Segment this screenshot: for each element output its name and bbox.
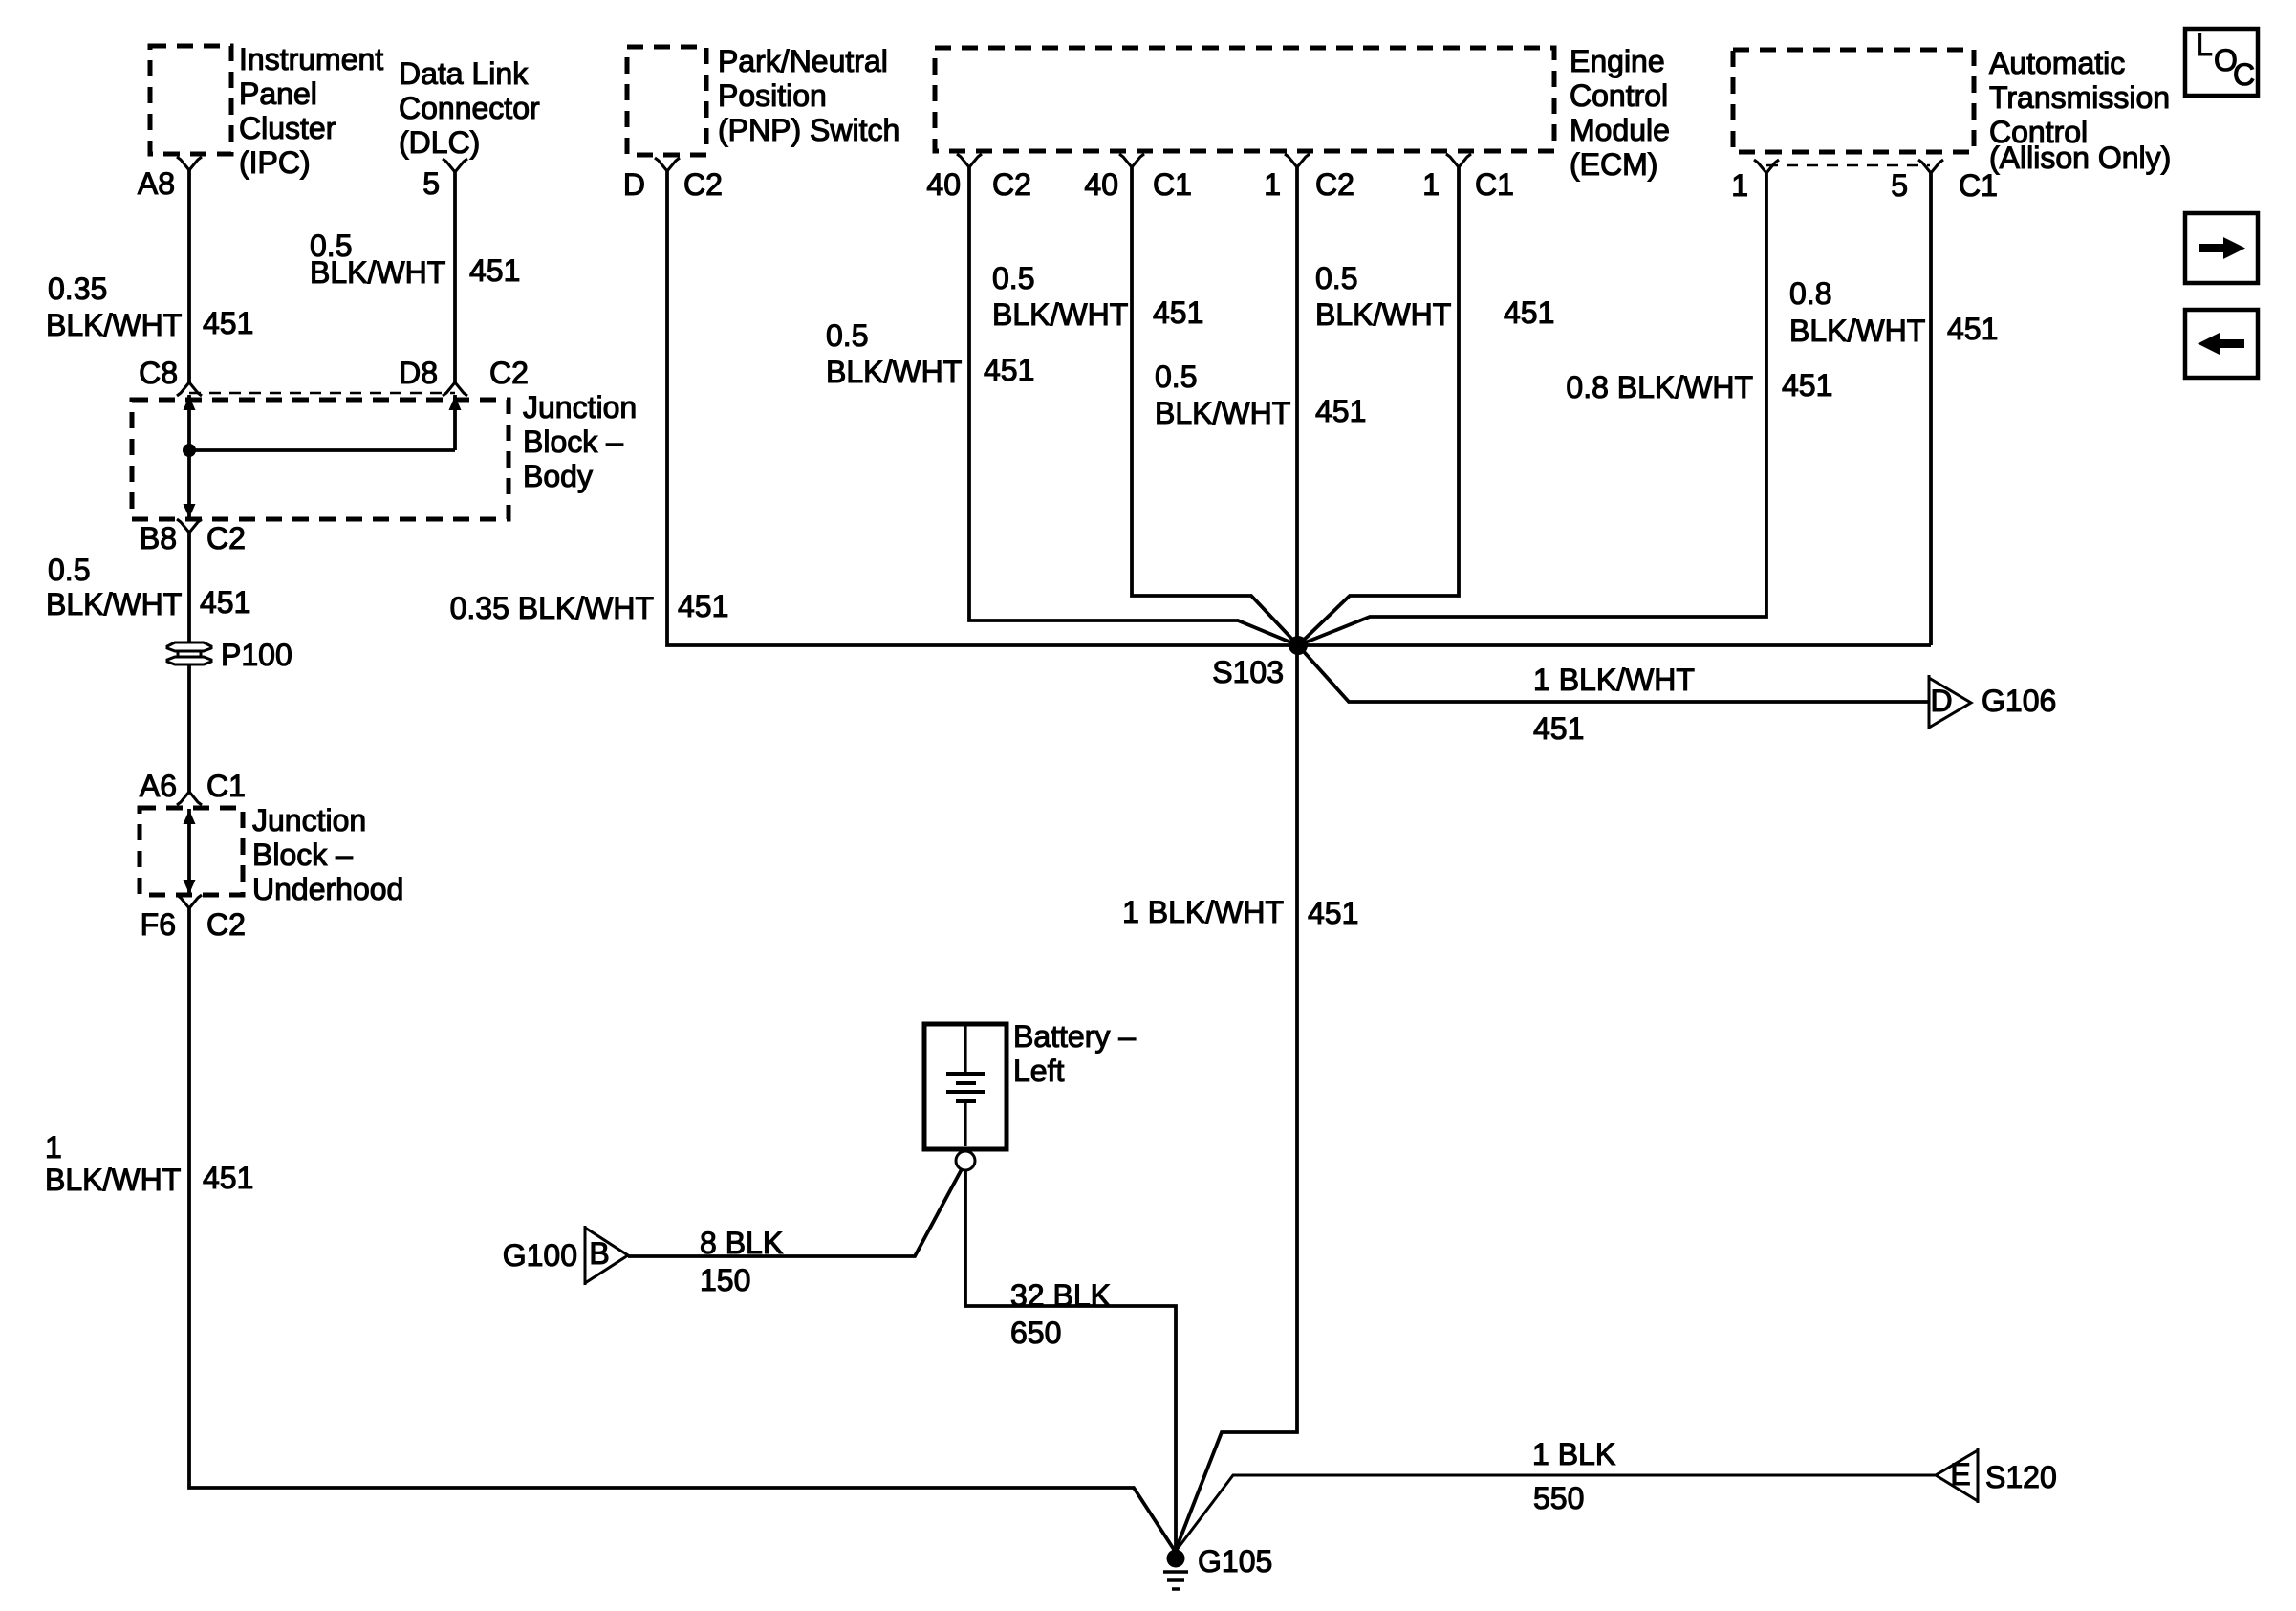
svg-text:451: 451 — [1782, 368, 1832, 403]
pin label 1 (ATC) — [1731, 168, 1748, 203]
wire label 451 (PNP) — [678, 589, 728, 623]
svg-text:S103: S103 — [1212, 655, 1284, 689]
wire label 0.35 BLK/WHT (IPC) — [46, 272, 182, 342]
svg-text:(Allison Only): (Allison Only) — [1989, 141, 2171, 175]
junction dot (JB body) — [183, 444, 196, 457]
wire label 8 BLK — [700, 1226, 783, 1260]
svg-text:1 BLK/WHT: 1 BLK/WHT — [1533, 663, 1695, 697]
svg-text:Position: Position — [718, 78, 827, 113]
wire label 0.5 BLK/WHT (ECM C2-1) — [1155, 359, 1290, 430]
pin label C2 (ECM) — [992, 167, 1031, 202]
off-page connector G100 — [585, 1226, 628, 1285]
wire label 1 BLK/WHT (G106) — [1533, 663, 1695, 697]
svg-text:451: 451 — [1533, 711, 1584, 746]
svg-text:451: 451 — [1947, 312, 1998, 346]
svg-text:451: 451 — [984, 353, 1034, 387]
svg-text:8 BLK: 8 BLK — [700, 1226, 783, 1260]
wire A8 to C8 0.35 BLK/WHT 451 — [187, 170, 191, 382]
pin 1 connector C1 (ECM) — [1446, 154, 1471, 167]
svg-text:C2: C2 — [206, 521, 246, 555]
svg-text:BLK/WHT: BLK/WHT — [1155, 396, 1290, 430]
wire label 0.5 BLK/WHT (ECM C1-1) — [1315, 261, 1451, 332]
svg-text:451: 451 — [678, 589, 728, 623]
wire ATC 1 to S103 — [1298, 173, 1766, 645]
component box Engine Control Module (ECM) — [935, 48, 1554, 151]
svg-text:(DLC): (DLC) — [399, 125, 480, 160]
svg-text:1: 1 — [1264, 167, 1281, 202]
pin label F6 — [141, 907, 176, 942]
svg-text:Transmission: Transmission — [1989, 80, 2170, 115]
wire label 451 (IPC) — [203, 306, 253, 340]
wire label 0.5 BLK/WHT (ECM C2-40) — [826, 318, 962, 389]
pin label C2 (Junction Block Body top) — [489, 356, 529, 390]
svg-text:Underhood: Underhood — [252, 872, 403, 906]
svg-text:Block –: Block – — [523, 425, 623, 459]
wire label 451 (ATC 5) — [1947, 312, 1998, 346]
wire label 0.5 BLK/WHT (ECM C1-40) — [992, 261, 1128, 332]
svg-text:(IPC): (IPC) — [239, 145, 311, 180]
svg-text:A8: A8 — [138, 166, 175, 201]
wire label 451 (B8) — [200, 585, 250, 620]
pin label C1 second (ECM) — [1475, 167, 1514, 202]
pin D8 connector (Junction Block Body) — [443, 382, 467, 396]
splice S103 — [1289, 636, 1308, 655]
svg-text:C1: C1 — [206, 769, 246, 803]
svg-text:BLK/WHT: BLK/WHT — [46, 587, 182, 621]
arrow down (JB underhood) — [184, 880, 196, 894]
svg-text:C2: C2 — [1315, 167, 1354, 202]
wire label 650 — [1010, 1316, 1061, 1350]
svg-text:Battery –: Battery – — [1013, 1019, 1136, 1054]
svg-text:0.5: 0.5 — [1315, 261, 1357, 295]
svg-text:451: 451 — [1153, 295, 1203, 330]
arrow up (JB underhood) — [184, 810, 196, 824]
svg-text:0.8 BLK/WHT: 0.8 BLK/WHT — [1566, 370, 1753, 404]
svg-text:5: 5 — [422, 166, 440, 201]
wire battery to G105 32 BLK 650 — [965, 1170, 1176, 1549]
off-page connector S120 — [1936, 1448, 1978, 1503]
svg-text:Park/Neutral: Park/Neutral — [718, 44, 888, 78]
pin D connector (PNP) — [655, 158, 680, 171]
wire G100 to battery 8 BLK 150 — [628, 1169, 962, 1256]
svg-text:G100: G100 — [503, 1238, 577, 1273]
label IPC — [239, 42, 383, 180]
svg-text:0.5: 0.5 — [826, 318, 868, 353]
wire label 0.8 BLK/WHT (ATC 1) — [1566, 370, 1753, 404]
svg-text:451: 451 — [200, 585, 250, 620]
wire label 1 BLK/WHT (S103 down) — [1122, 895, 1284, 929]
svg-text:C2: C2 — [683, 167, 723, 202]
pin label 5 — [422, 166, 440, 201]
svg-text:Engine: Engine — [1570, 44, 1665, 78]
pin 1 connector (ATC) — [1754, 160, 1779, 173]
svg-text:G106: G106 — [1982, 684, 2056, 718]
svg-text:451: 451 — [203, 306, 253, 340]
ground G105 — [1163, 1550, 1188, 1590]
wire ECM C1-40 to S103 — [1132, 167, 1298, 645]
svg-text:Connector: Connector — [399, 91, 540, 125]
svg-text:C: C — [2233, 57, 2255, 92]
battery Battery - Left — [924, 1024, 1007, 1149]
label S120 — [1985, 1460, 2057, 1494]
wire label 451 (ECM C1-1) — [1504, 295, 1554, 330]
legend box right arrow — [2185, 213, 2258, 283]
pin label D8 — [399, 356, 438, 390]
svg-text:40: 40 — [926, 167, 961, 202]
svg-text:40: 40 — [1084, 167, 1118, 202]
label Automatic Transmission Control — [1989, 46, 2171, 175]
pin 5 connector (ATC) — [1918, 160, 1943, 173]
pin A6 connector (Junction Block Underhood) — [177, 792, 202, 805]
pin label B8 — [140, 521, 177, 555]
pin label C1 (A6) — [206, 769, 246, 803]
svg-text:Junction: Junction — [523, 390, 637, 425]
label PNP Switch — [718, 44, 899, 147]
svg-text:(ECM): (ECM) — [1570, 147, 1657, 182]
svg-text:BLK/WHT: BLK/WHT — [992, 297, 1128, 332]
wire label 451 (ECM C2-40) — [984, 353, 1034, 387]
svg-text:D: D — [1930, 684, 1952, 718]
svg-text:S120: S120 — [1985, 1460, 2057, 1494]
wire label 451 (DLC) — [469, 253, 520, 288]
wire inside junction block body left — [187, 395, 191, 517]
connector line C1 (ATC) — [1766, 164, 1930, 167]
svg-text:P100: P100 — [221, 638, 292, 672]
svg-text:451: 451 — [203, 1161, 253, 1195]
pin label C2 (PNP) — [683, 167, 723, 202]
label G105 — [1198, 1544, 1272, 1578]
svg-text:550: 550 — [1533, 1481, 1584, 1515]
legend box LOC — [2185, 28, 2258, 96]
label P100 — [221, 638, 292, 672]
connector line C2 (Junction Block Body) — [189, 392, 455, 395]
svg-text:Cluster: Cluster — [239, 111, 336, 145]
svg-text:C1: C1 — [1959, 168, 1998, 203]
arrow up (JB body right) — [449, 396, 462, 410]
wire label 0.8 BLK/WHT (ATC 5) — [1789, 276, 1925, 348]
wire label 451 (ECM C2-1) — [1315, 394, 1366, 428]
wire ECM C2-1 to S103 — [1295, 167, 1299, 645]
arrow up (JB body left) — [184, 396, 196, 410]
svg-text:32 BLK: 32 BLK — [1010, 1278, 1111, 1313]
connector box Instrument Panel Cluster (IPC) — [150, 46, 231, 154]
battery terminal — [956, 1151, 975, 1170]
pin C8 connector (Junction Block Body) — [177, 382, 202, 396]
pin label 1 (ECM C2) — [1264, 167, 1281, 202]
svg-text:BLK/WHT: BLK/WHT — [310, 255, 445, 290]
wire label 451 (ATC 1) — [1782, 368, 1832, 403]
pin B8 connector (Junction Block Body bottom) — [177, 519, 202, 533]
pin label A6 — [140, 769, 177, 803]
pin 40 connector C2 (ECM) — [957, 154, 982, 167]
svg-text:BLK/WHT: BLK/WHT — [1789, 314, 1925, 348]
wire label 451 (G106) — [1533, 711, 1584, 746]
svg-text:A6: A6 — [140, 769, 177, 803]
label Battery - Left — [1013, 1019, 1136, 1088]
junction block body box — [132, 400, 509, 519]
svg-text:0.35: 0.35 — [48, 272, 107, 306]
wire label 550 — [1533, 1481, 1584, 1515]
pin label C1 (ECM) — [1153, 167, 1192, 202]
pin label C2 (B8) — [206, 521, 246, 555]
svg-text:F6: F6 — [141, 907, 176, 942]
wire label 0.5 BLK/WHT (DLC) — [310, 229, 445, 290]
wire D to S103 0.35 BLK/WHT 451 — [667, 171, 1931, 645]
svg-text:D8: D8 — [399, 356, 438, 390]
pin label C8 — [139, 356, 178, 390]
connector box Park/Neutral Position (PNP) Switch — [627, 47, 706, 155]
svg-text:Left: Left — [1013, 1054, 1064, 1088]
wire label 1 BLK/WHT (F6) — [45, 1130, 181, 1197]
component box Automatic Transmission Control — [1733, 50, 1974, 152]
svg-text:451: 451 — [1315, 394, 1366, 428]
svg-text:451: 451 — [1504, 295, 1554, 330]
wire label 1 BLK — [1532, 1437, 1615, 1471]
wire label 150 — [700, 1263, 750, 1297]
label G100 — [503, 1238, 577, 1273]
pin label 1 (ECM C1) — [1422, 167, 1440, 202]
svg-text:650: 650 — [1010, 1316, 1061, 1350]
label ECM — [1570, 44, 1670, 182]
svg-text:0.5: 0.5 — [48, 553, 90, 587]
svg-text:BLK/WHT: BLK/WHT — [45, 1163, 181, 1197]
wire ECM C2-40 to S103 — [969, 167, 1298, 645]
svg-text:(PNP) Switch: (PNP) Switch — [718, 113, 899, 147]
junction block underhood box — [140, 808, 243, 895]
wire label 0.5 BLK/WHT (B8) — [46, 553, 182, 621]
svg-text:5: 5 — [1891, 168, 1908, 203]
pin label 5 (ATC) — [1891, 168, 1908, 203]
svg-text:BLK/WHT: BLK/WHT — [1315, 297, 1451, 332]
svg-text:Control: Control — [1570, 78, 1668, 113]
wire label 0.35 BLK/WHT (PNP) — [450, 591, 654, 625]
svg-text:0.5: 0.5 — [992, 261, 1034, 295]
svg-text:1: 1 — [1731, 168, 1748, 203]
svg-text:B8: B8 — [140, 521, 177, 555]
label Junction Block Body — [523, 390, 637, 493]
off-page connector G106 — [1929, 675, 1971, 729]
wire label 451 (F6) — [203, 1161, 253, 1195]
svg-text:C2: C2 — [206, 907, 246, 942]
wire inside junction block underhood — [187, 809, 191, 893]
svg-text:Module: Module — [1570, 113, 1670, 147]
label Data Link Connector (DLC) — [399, 56, 540, 160]
svg-text:Block –: Block – — [252, 838, 353, 872]
label G106 — [1982, 684, 2056, 718]
pin F6 connector (Junction Block Underhood bottom) — [177, 895, 202, 908]
pin A8 connector (IPC) — [177, 157, 202, 170]
legend box left arrow — [2185, 310, 2258, 378]
pin label C1 (ATC) — [1959, 168, 1998, 203]
wire P100 to A6 — [187, 664, 191, 792]
pin 5 connector (DLC) — [443, 159, 467, 172]
label S103 — [1212, 655, 1284, 689]
pin label A8 — [138, 166, 175, 201]
svg-text:B: B — [589, 1236, 609, 1271]
arrow down (JB body left) — [184, 504, 196, 518]
svg-text:150: 150 — [700, 1263, 750, 1297]
svg-text:0.8: 0.8 — [1789, 276, 1831, 311]
label Junction Block Underhood — [252, 803, 403, 906]
svg-text:C1: C1 — [1475, 167, 1514, 202]
wire inside junction block body right — [453, 395, 457, 450]
svg-text:451: 451 — [469, 253, 520, 288]
wire F6 to G105 1 BLK/WHT 451 — [189, 908, 1175, 1551]
svg-text:Panel: Panel — [239, 76, 317, 111]
svg-text:L: L — [2196, 28, 2213, 62]
svg-text:451: 451 — [1308, 896, 1358, 930]
svg-text:Junction: Junction — [252, 803, 366, 838]
wire ECM C1-1 to S103 — [1298, 167, 1459, 645]
wire S103 to G106 1 BLK/WHT 451 — [1298, 645, 1928, 702]
pin 40 connector C1 (ECM) — [1119, 154, 1144, 167]
pin 1 connector C2 (ECM) — [1285, 154, 1310, 167]
svg-text:C1: C1 — [1153, 167, 1192, 202]
pin label D — [623, 167, 645, 202]
wire ATC 5 to S103 — [1929, 173, 1933, 645]
wire label 32 BLK — [1010, 1278, 1111, 1313]
svg-text:E: E — [1950, 1457, 1970, 1491]
svg-text:BLK/WHT: BLK/WHT — [826, 355, 962, 389]
svg-text:G105: G105 — [1198, 1544, 1272, 1578]
pin label C2 second (ECM) — [1315, 167, 1354, 202]
svg-text:1: 1 — [1422, 167, 1440, 202]
svg-text:C8: C8 — [139, 356, 178, 390]
svg-text:1 BLK: 1 BLK — [1532, 1437, 1615, 1471]
svg-text:Data Link: Data Link — [399, 56, 529, 91]
svg-text:D: D — [623, 167, 645, 202]
svg-text:Body: Body — [523, 459, 593, 493]
wire S120 to G105 1 BLK 550 — [1177, 1475, 1936, 1550]
pin label C2 (F6) — [206, 907, 246, 942]
wire inside junction block body horizontal — [189, 448, 455, 452]
svg-text:0.5: 0.5 — [1155, 359, 1197, 394]
wire 5 to D8 0.5 BLK/WHT 451 — [453, 172, 457, 382]
svg-text:Automatic: Automatic — [1989, 46, 2125, 80]
pin label 40 (ECM C1) — [1084, 167, 1118, 202]
wire B8 to P100 0.5 BLK/WHT 451 — [187, 533, 191, 642]
wire label 451 (S103 down) — [1308, 896, 1358, 930]
svg-text:1 BLK/WHT: 1 BLK/WHT — [1122, 895, 1284, 929]
wire S103 to G105 1 BLK/WHT 451 — [1176, 645, 1297, 1550]
svg-text:BLK/WHT: BLK/WHT — [46, 308, 182, 342]
svg-text:C2: C2 — [489, 356, 529, 390]
svg-text:0.35 BLK/WHT: 0.35 BLK/WHT — [450, 591, 654, 625]
grommet P100 — [167, 642, 211, 664]
pin label 40 (ECM C2) — [926, 167, 961, 202]
wire label 451 (ECM C1-40) — [1153, 295, 1203, 330]
svg-text:C2: C2 — [992, 167, 1031, 202]
svg-text:1: 1 — [45, 1130, 62, 1165]
svg-text:Instrument: Instrument — [239, 42, 383, 76]
